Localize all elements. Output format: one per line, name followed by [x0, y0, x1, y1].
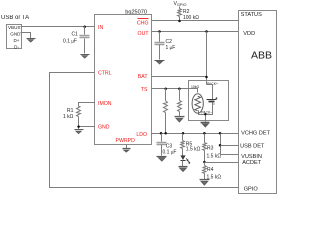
svg-text:GND: GND — [98, 125, 110, 131]
wire CTRL loop to GPIO — [50, 73, 239, 188]
svg-text:D-: D- — [14, 44, 19, 49]
wire USB DET branch — [221, 134, 239, 155]
resistor TS to LDO — [164, 89, 168, 134]
junction R3 tap — [203, 132, 206, 135]
junction USB DET — [219, 144, 222, 147]
svg-text:PWRPD: PWRPD — [116, 138, 136, 144]
svg-text:VUSBIN: VUSBIN — [241, 154, 262, 160]
svg-text:GND: GND — [10, 31, 21, 36]
junction C3 tap — [160, 132, 163, 135]
junction TS pull-up bottom — [164, 132, 167, 135]
svg-text:BAT: BAT — [138, 74, 149, 80]
junction R1 bottom on GND wire — [77, 125, 80, 128]
svg-text:C1: C1 — [72, 32, 79, 38]
LDO rail to VCHG DET — [152, 133, 239, 135]
connector J1 USB or TA — [1, 15, 29, 49]
svg-text:USB or TA: USB or TA — [1, 15, 29, 21]
svg-text:10kΩ: 10kΩ — [191, 85, 199, 89]
svg-text:R4: R4 — [207, 167, 214, 173]
wire GND stub — [21, 33, 31, 39]
PWRPD pin arrow — [123, 145, 131, 153]
wire ACDET — [205, 162, 239, 164]
svg-text:C2: C2 — [166, 39, 173, 45]
svg-text:OUT: OUT — [138, 31, 150, 37]
pack internal wires — [189, 85, 213, 122]
wire USB DET — [221, 145, 239, 147]
svg-text:R3: R3 — [207, 145, 214, 151]
capacitor C1 0.1 uF — [63, 27, 90, 54]
svg-text:STATUS: STATUS — [241, 12, 263, 18]
svg-text:CHG: CHG — [137, 20, 149, 26]
svg-text:IN: IN — [98, 25, 103, 31]
junction C2 tap — [158, 30, 161, 33]
wire GND — [79, 127, 95, 130]
svg-text:ABB: ABB — [251, 49, 272, 61]
resistor R5 1.5 kOhm — [181, 134, 201, 156]
IC U1 bq25070 — [95, 9, 152, 144]
svg-text:IMON: IMON — [98, 101, 112, 107]
wire VBUS to IN — [21, 26, 95, 28]
junction C1 tap — [83, 26, 86, 29]
ground under TS bias resistor — [175, 117, 185, 122]
svg-text:LDO: LDO — [136, 132, 147, 138]
junction pack drop on OUT line — [205, 30, 208, 33]
wire pack drop vertical — [206, 32, 208, 85]
svg-text:TS: TS — [141, 87, 148, 93]
LED D1 — [180, 155, 190, 166]
resistor TS to ground — [178, 89, 182, 117]
svg-text:CTRL: CTRL — [98, 70, 112, 76]
ground under USB GND — [27, 39, 36, 43]
ground under LED — [179, 167, 188, 172]
junction TS pull-up tap — [164, 87, 167, 90]
ground under C3 — [157, 157, 167, 162]
svg-text:1.5 kΩ: 1.5 kΩ — [186, 147, 201, 153]
svg-text:GPIO: GPIO — [244, 186, 259, 192]
wire CHG to STATUS — [152, 20, 239, 22]
resistor R1 1 kOhm — [63, 107, 81, 127]
svg-text:0.1 µF: 0.1 µF — [63, 39, 77, 45]
ground under GND pin — [75, 130, 84, 134]
resistor R3 1.5 kOhm — [203, 134, 222, 163]
wire OUT to VDD — [152, 31, 239, 33]
wire IMON — [79, 103, 95, 107]
svg-text:D+: D+ — [13, 38, 19, 43]
svg-text:VCHG DET: VCHG DET — [241, 130, 270, 136]
IC U2 ABB — [239, 11, 277, 194]
svg-text:100 kΩ: 100 kΩ — [183, 15, 199, 21]
svg-text:USB DET: USB DET — [240, 144, 265, 150]
junction USB DET branch tap — [219, 132, 222, 135]
junction TS bias tap — [178, 87, 181, 90]
ground under R4 — [200, 180, 210, 186]
svg-text:VBUS: VBUS — [8, 25, 21, 30]
ground under C2 — [155, 61, 165, 64]
thermistor RT1 10kOhm — [191, 85, 203, 113]
capacitor C2 1 uF — [155, 32, 176, 60]
svg-text:1.5 kΩ: 1.5 kΩ — [207, 154, 222, 160]
svg-text:ACDET: ACDET — [242, 160, 262, 166]
capacitor C3 0.1 uF — [157, 134, 177, 156]
junction PACK- node — [204, 113, 206, 115]
svg-text:0.1 µF: 0.1 µF — [163, 149, 177, 155]
battery pack box — [189, 81, 229, 121]
resistor R4 1.5 kOhm — [203, 163, 222, 181]
ground under C1 — [81, 55, 90, 59]
svg-text:1 kΩ: 1 kΩ — [63, 114, 74, 120]
svg-text:VDD: VDD — [243, 31, 255, 37]
resistor R2 100 kOhm — [178, 7, 200, 21]
junction BAT meets pack drop — [205, 76, 208, 79]
junction R5 tap — [182, 132, 185, 135]
wire BAT — [152, 76, 207, 78]
ground pack (thick arrow) — [201, 123, 210, 128]
junction R2 on CHG line — [178, 20, 181, 23]
battery cell BT1 — [207, 97, 218, 104]
junction ACDET tap — [203, 161, 206, 164]
wire TS — [152, 88, 198, 90]
